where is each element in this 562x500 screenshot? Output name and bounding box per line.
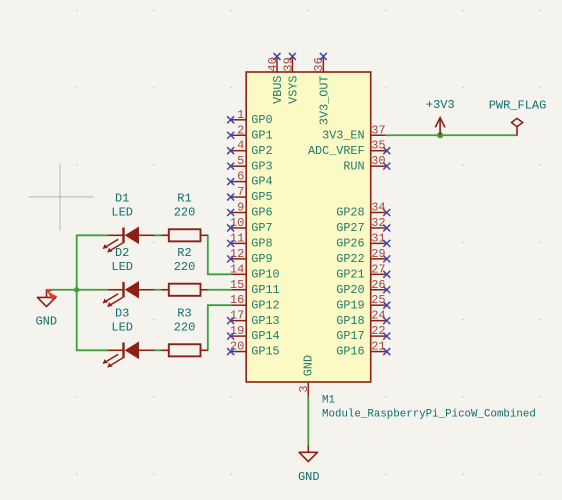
svg-text:3V3_OUT: 3V3_OUT xyxy=(317,76,331,126)
svg-text:R2: R2 xyxy=(177,246,191,260)
svg-text:GND: GND xyxy=(302,355,316,376)
svg-text:VSYS: VSYS xyxy=(286,76,300,104)
pin 30 (RUN) right xyxy=(343,154,390,173)
svg-text:GP8: GP8 xyxy=(251,237,272,251)
pin 29 (GP22) right xyxy=(336,247,390,266)
svg-text:14: 14 xyxy=(230,262,244,276)
wire junction to LED D2 anode xyxy=(77,289,108,291)
pin 10 (GP7) left xyxy=(227,216,272,235)
svg-text:29: 29 xyxy=(371,247,385,261)
svg-text:30: 30 xyxy=(371,154,385,168)
svg-text:GP20: GP20 xyxy=(336,283,364,297)
wire R2 to GP11 xyxy=(208,289,231,291)
svg-text:31: 31 xyxy=(371,231,385,245)
svg-text:R1: R1 xyxy=(177,191,191,205)
svg-text:10: 10 xyxy=(230,216,244,230)
pin 26 (GP20) right xyxy=(336,278,390,297)
svg-text:GP12: GP12 xyxy=(251,298,279,312)
wire D3 cathode to R3 xyxy=(154,349,161,351)
svg-text:37: 37 xyxy=(371,123,385,137)
pin 39 (VSYS) top xyxy=(281,53,300,104)
pin 12 (GP9) left xyxy=(227,247,272,266)
pin 14 (GP10) left xyxy=(230,262,280,281)
svg-text:17: 17 xyxy=(230,309,244,323)
svg-text:GP28: GP28 xyxy=(336,206,364,220)
svg-text:GP0: GP0 xyxy=(251,113,272,127)
svg-text:GP9: GP9 xyxy=(251,252,272,266)
svg-text:M1: M1 xyxy=(322,394,335,406)
svg-text:ADC_VREF: ADC_VREF xyxy=(308,144,365,158)
svg-text:35: 35 xyxy=(371,139,385,153)
svg-text:+3V3: +3V3 xyxy=(426,98,455,112)
svg-text:GP3: GP3 xyxy=(251,159,272,173)
pin 3 (GND) bottom xyxy=(297,355,316,398)
svg-text:GP4: GP4 xyxy=(251,175,272,189)
junction at +3V3 xyxy=(437,132,443,138)
pin 35 (ADC_VREF) right xyxy=(308,139,390,158)
svg-text:6: 6 xyxy=(237,170,244,184)
pin 17 (GP13) left xyxy=(227,309,279,328)
svg-text:D3: D3 xyxy=(115,306,129,320)
svg-text:34: 34 xyxy=(371,201,385,215)
pin 2 (GP1) left xyxy=(227,123,272,142)
pin 21 (GP16) right xyxy=(336,340,390,359)
svg-text:GP6: GP6 xyxy=(251,206,272,220)
svg-text:12: 12 xyxy=(230,247,244,261)
pin 40 (VBUS) top xyxy=(266,53,285,104)
wire R1 to GP10 xyxy=(207,235,209,274)
power +3V3 xyxy=(435,118,445,136)
svg-text:GP5: GP5 xyxy=(251,190,272,204)
ground GND bottom xyxy=(299,446,317,462)
svg-text:LED: LED xyxy=(111,321,133,335)
wire GND pin down xyxy=(307,397,309,445)
svg-text:GP13: GP13 xyxy=(251,314,279,328)
svg-text:D1: D1 xyxy=(115,191,129,205)
svg-text:GND: GND xyxy=(35,314,57,328)
svg-text:22: 22 xyxy=(371,324,385,338)
junction at GND bus xyxy=(74,287,79,292)
svg-text:11: 11 xyxy=(230,231,244,245)
pin 37 (3V3_EN) right xyxy=(322,123,386,142)
svg-text:GND: GND xyxy=(298,470,320,484)
svg-text:RUN: RUN xyxy=(343,159,364,173)
wire pin 37 to PWR_FLAG xyxy=(386,134,517,136)
svg-text:5: 5 xyxy=(237,154,244,168)
wire D2 cathode to R2 xyxy=(154,289,161,291)
svg-text:32: 32 xyxy=(371,216,385,230)
svg-text:39: 39 xyxy=(281,57,295,71)
svg-text:LED: LED xyxy=(111,206,133,220)
svg-text:GP7: GP7 xyxy=(251,221,272,235)
svg-text:3V3_EN: 3V3_EN xyxy=(322,128,364,142)
pin 31 (GP26) right xyxy=(336,231,390,250)
svg-text:220: 220 xyxy=(174,206,196,220)
wire R3 to GP12 xyxy=(207,305,209,350)
svg-text:GP10: GP10 xyxy=(251,267,279,281)
svg-text:GP22: GP22 xyxy=(336,252,364,266)
power flag PWR_FLAG xyxy=(511,118,522,135)
pin 36 (3V3_OUT) top xyxy=(312,53,331,125)
pin 1 (GP0) left xyxy=(227,108,272,127)
svg-text:GP17: GP17 xyxy=(336,329,364,343)
svg-text:7: 7 xyxy=(237,185,244,199)
svg-text:220: 220 xyxy=(174,321,196,335)
pin 32 (GP27) right xyxy=(336,216,390,235)
svg-text:GP27: GP27 xyxy=(336,221,364,235)
pin 15 (GP11) left xyxy=(230,278,280,297)
svg-text:9: 9 xyxy=(237,201,244,215)
pin 6 (GP4) left xyxy=(227,170,272,189)
svg-text:GP26: GP26 xyxy=(336,237,364,251)
svg-text:21: 21 xyxy=(371,340,385,354)
svg-text:24: 24 xyxy=(371,309,385,323)
svg-text:26: 26 xyxy=(371,278,385,292)
svg-text:4: 4 xyxy=(237,139,244,153)
wire D1 cathode to R1 xyxy=(154,234,161,236)
module M1 body xyxy=(246,72,371,382)
pin 5 (GP3) left xyxy=(227,154,272,173)
svg-text:GP16: GP16 xyxy=(336,345,364,359)
pin 19 (GP14) left xyxy=(227,324,279,343)
ERC marker arrow xyxy=(45,289,57,301)
LED D3 xyxy=(103,342,154,368)
svg-text:VBUS: VBUS xyxy=(271,76,285,104)
svg-text:220: 220 xyxy=(174,260,196,274)
wire GND stub to junction row2 xyxy=(47,289,77,291)
ground GND left xyxy=(37,290,55,307)
svg-text:PWR_FLAG: PWR_FLAG xyxy=(489,98,547,112)
svg-text:GP15: GP15 xyxy=(251,345,279,359)
pin 34 (GP28) right xyxy=(336,201,390,220)
svg-text:GP18: GP18 xyxy=(336,314,364,328)
svg-text:3: 3 xyxy=(297,385,311,392)
svg-text:20: 20 xyxy=(230,340,244,354)
svg-text:LED: LED xyxy=(111,260,133,274)
svg-text:27: 27 xyxy=(371,262,385,276)
resistor R1 xyxy=(162,229,208,241)
LED D2 xyxy=(103,281,154,307)
pin 22 (GP17) right xyxy=(336,324,390,343)
svg-text:40: 40 xyxy=(266,57,280,71)
resistor R2 xyxy=(162,284,208,296)
resistor R3 xyxy=(162,344,208,356)
svg-text:36: 36 xyxy=(312,57,326,71)
pin 11 (GP8) left xyxy=(227,231,272,250)
svg-text:Module_RaspberryPi_PicoW_Combi: Module_RaspberryPi_PicoW_Combined xyxy=(322,409,536,421)
wire bus corner to LED D3 xyxy=(77,349,108,351)
pin 4 (GP2) left xyxy=(227,139,272,158)
svg-text:2: 2 xyxy=(237,123,244,137)
svg-text:16: 16 xyxy=(230,293,244,307)
svg-text:R3: R3 xyxy=(177,306,191,320)
svg-text:25: 25 xyxy=(371,293,385,307)
svg-text:GP14: GP14 xyxy=(251,329,279,343)
svg-text:GP2: GP2 xyxy=(251,144,272,158)
pin 25 (GP19) right xyxy=(336,293,390,312)
wire bus corner to LED D1 xyxy=(77,234,108,236)
pin 16 (GP12) left xyxy=(230,293,280,312)
svg-text:15: 15 xyxy=(230,278,244,292)
wire vertical bus D1-D3 xyxy=(76,235,78,350)
svg-text:1: 1 xyxy=(237,108,244,122)
pin 9 (GP6) left xyxy=(227,201,272,220)
pin 24 (GP18) right xyxy=(336,309,390,328)
pin 7 (GP5) left xyxy=(227,185,272,204)
pin 20 (GP15) left xyxy=(227,340,279,359)
pin 27 (GP21) right xyxy=(336,262,390,281)
svg-text:GP1: GP1 xyxy=(251,128,272,142)
svg-text:D2: D2 xyxy=(115,246,129,260)
svg-text:GP11: GP11 xyxy=(251,283,279,297)
LED D1 xyxy=(103,227,154,253)
svg-text:GP21: GP21 xyxy=(336,267,364,281)
svg-text:GP19: GP19 xyxy=(336,298,364,312)
svg-text:19: 19 xyxy=(230,324,244,338)
